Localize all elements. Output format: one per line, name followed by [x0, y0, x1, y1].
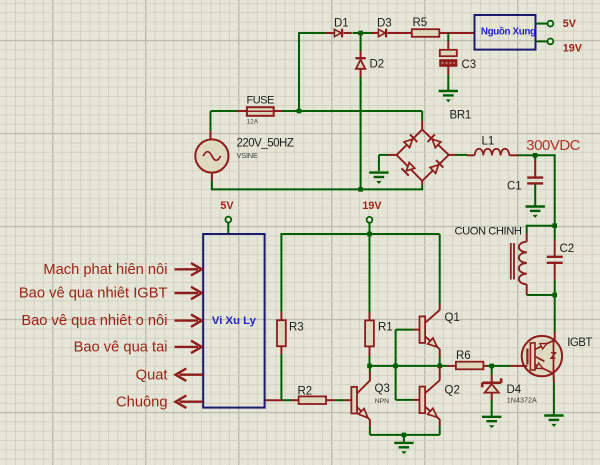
- label 300VDC net: [526, 137, 580, 154]
- wire C1 to ground: [534, 185, 536, 206]
- svg-text:Mach phat hiên nôi: Mach phat hiên nôi: [43, 262, 167, 278]
- transformer core lines: [511, 243, 514, 280]
- svg-text:300VDC: 300VDC: [526, 137, 580, 154]
- label Chu&#244;ng: [116, 394, 167, 410]
- inductor CUON CHINH coil: [519, 242, 527, 285]
- node junction fuse-rail: [297, 109, 302, 114]
- svg-text:D3: D3: [377, 18, 392, 30]
- label C1: [507, 181, 522, 193]
- label R3: [289, 322, 304, 334]
- svg-text:C1: C1: [507, 181, 522, 193]
- wire box to R2: [265, 399, 299, 401]
- label C3: [462, 59, 477, 71]
- signal arrow 5: [176, 369, 204, 381]
- wire bottom rail: [370, 434, 440, 436]
- resistor R6: [456, 362, 484, 370]
- node junction R6-D4: [489, 364, 494, 369]
- resistor R3: [277, 320, 286, 346]
- svg-text:R1: R1: [378, 322, 393, 334]
- node junction R1 bottom: [367, 364, 372, 369]
- diode D2: [356, 51, 366, 77]
- svg-text:Chuông: Chuông: [116, 394, 167, 410]
- transistor IGBT Q4: [522, 336, 562, 376]
- label D1: [334, 18, 349, 30]
- svg-text:Bao vê qua nhiêt o nôi: Bao vê qua nhiêt o nôi: [21, 313, 167, 329]
- resistor R2: [299, 396, 327, 404]
- mcu block Vi Xu Ly: [203, 234, 264, 408]
- svg-text:1N4372A: 1N4372A: [507, 396, 537, 405]
- svg-text:220V_50HZ: 220V_50HZ: [237, 138, 294, 150]
- wire R2 to Q3 base: [326, 399, 351, 401]
- label FUSE: [247, 95, 275, 107]
- wire D2 to AC bottom: [360, 77, 362, 189]
- wire R6 left: [442, 365, 456, 367]
- wire choke top: [527, 225, 555, 227]
- wire 19V rail: [281, 233, 439, 235]
- ground bottom rail: [394, 436, 413, 454]
- svg-text:D1: D1: [334, 18, 349, 30]
- zener diode D4: [482, 378, 501, 392]
- svg-text:Bao vê qua tai: Bao vê qua tai: [74, 340, 168, 356]
- ground bridge minus: [369, 173, 388, 184]
- label Bao v&#234; qua nhi&#234;t o n&#244;i: [21, 313, 167, 329]
- node junction Q2 base drop: [393, 364, 398, 369]
- svg-text:C3: C3: [462, 59, 477, 71]
- source V1 220V_50HZ VSINE: [195, 139, 228, 172]
- label R2: [298, 386, 313, 398]
- label Vi Xu Ly: [212, 315, 257, 327]
- label R1: [378, 322, 393, 334]
- wire D2 upper stub: [360, 35, 362, 51]
- signal arrow 1: [175, 263, 202, 275]
- wire 300VDC to C1: [534, 155, 536, 176]
- wire R6 to D4 node: [484, 365, 490, 367]
- svg-text:Q3: Q3: [375, 383, 390, 395]
- svg-text:C2: C2: [560, 243, 575, 255]
- svg-text:L1: L1: [482, 136, 495, 148]
- wire IGBT emitter: [553, 374, 555, 415]
- label L1: [482, 136, 495, 148]
- label NPN: [375, 398, 389, 405]
- power supply block Nguon Xung: [475, 15, 536, 50]
- svg-text:CUON CHINH: CUON CHINH: [455, 226, 522, 238]
- label VSINE: [237, 151, 258, 160]
- node junction 300VDC: [533, 153, 538, 158]
- svg-text:Quat: Quat: [136, 367, 168, 383]
- label D2: [370, 59, 385, 71]
- label D3: [377, 18, 392, 30]
- label 12A: [247, 119, 259, 126]
- wire top rail left vertical: [298, 33, 300, 111]
- ground D4: [482, 417, 501, 428]
- svg-text:D2: D2: [370, 59, 385, 71]
- wire C3 to ground: [447, 66, 449, 90]
- svg-text:19V: 19V: [563, 43, 583, 55]
- diode D1: [325, 29, 352, 38]
- wire choke top stub: [526, 225, 528, 242]
- fuse FUSE 12A: [237, 107, 282, 116]
- wire R1 top: [369, 234, 371, 320]
- diode D3: [372, 29, 413, 38]
- wire Q2 collector: [439, 366, 441, 381]
- bridge diode bottom-right: [429, 160, 443, 174]
- ground IGBT emitter: [544, 416, 563, 427]
- label C2: [560, 243, 575, 255]
- ground C3: [439, 91, 458, 102]
- svg-text:12A: 12A: [247, 119, 259, 126]
- wire C2 top: [554, 226, 556, 256]
- wire Q1 emitter: [439, 349, 441, 366]
- svg-text:VSINE: VSINE: [237, 151, 258, 160]
- label IGBT: [567, 337, 592, 349]
- wire IGBT gate: [494, 365, 527, 367]
- svg-text:NPN: NPN: [375, 398, 389, 405]
- svg-text:5V: 5V: [220, 200, 234, 212]
- svg-text:Nguồn Xung: Nguồn Xung: [481, 27, 536, 38]
- power terminal 5V: [220, 200, 234, 234]
- label 220V_50HZ: [237, 138, 294, 150]
- label Quat: [136, 367, 168, 383]
- power terminal 19V: [362, 200, 382, 234]
- signal arrow 3: [175, 314, 202, 326]
- transistor Q2: [420, 380, 440, 420]
- resistor R1: [365, 320, 374, 346]
- wire R3 top: [280, 233, 282, 320]
- resistor R5: [412, 29, 440, 37]
- label 19V output: [563, 43, 583, 55]
- node junction Q1-Q2: [437, 364, 442, 369]
- label 5V output: [563, 18, 577, 30]
- svg-text:D4: D4: [507, 384, 522, 396]
- pin PSU 19V output: [536, 39, 554, 45]
- bridge diode top-left: [403, 134, 417, 148]
- transistor Q1: [420, 310, 440, 350]
- wire L1 to 300VDC node: [509, 154, 554, 156]
- wire VSINE bottom: [211, 173, 361, 190]
- node junction D2-AC bottom: [358, 187, 363, 192]
- label Bao v&#234; qua tai: [74, 340, 168, 356]
- capacitor C1: [527, 178, 543, 184]
- label R6: [456, 350, 471, 362]
- node junction choke bottom: [552, 293, 557, 298]
- wire top rail horizontal: [298, 32, 372, 34]
- svg-text:Q1: Q1: [445, 312, 460, 324]
- label Mach phat hi&#234;n n&#244;i: [43, 262, 167, 278]
- label 1N4372A: [507, 396, 537, 405]
- svg-text:R6: R6: [456, 350, 471, 362]
- wire bridge to L1: [449, 154, 475, 156]
- wire VSINE top: [210, 111, 212, 140]
- capacitor C2: [547, 257, 563, 263]
- svg-text:5V: 5V: [563, 18, 577, 30]
- node junction 19V rail: [367, 232, 372, 237]
- label Bao v&#234; qua nhi&#234;t IGBT: [19, 286, 168, 302]
- svg-text:Vi Xu Ly: Vi Xu Ly: [212, 315, 257, 327]
- svg-text:Q2: Q2: [445, 385, 460, 397]
- bridge diode bottom-left: [402, 162, 416, 176]
- wire AC bottom: [361, 188, 423, 190]
- wire D4 to ground: [491, 393, 493, 416]
- wire R5 to PSU: [439, 32, 474, 34]
- label R5: [413, 17, 428, 29]
- label Nguon Xung: [481, 27, 536, 38]
- node junction bottom rail: [402, 433, 407, 438]
- svg-text:R3: R3: [289, 322, 304, 334]
- wire bridge left to ground: [379, 155, 397, 171]
- svg-text:19V: 19V: [362, 200, 382, 212]
- svg-text:FUSE: FUSE: [247, 95, 275, 107]
- wire Q1 collector: [439, 234, 441, 310]
- wire bridge top stub: [421, 111, 423, 130]
- wire base row: [370, 365, 440, 367]
- bridge diode top-right: [428, 134, 442, 148]
- label D4: [507, 384, 522, 396]
- svg-text:R5: R5: [413, 17, 428, 29]
- svg-text:Bao vê qua nhiêt IGBT: Bao vê qua nhiêt IGBT: [19, 286, 168, 302]
- label Q3: [375, 383, 390, 395]
- node junction choke top: [552, 223, 557, 228]
- wire R1 bottom: [369, 346, 371, 366]
- label Q1: [445, 312, 460, 324]
- wire Q3 emitter: [369, 420, 371, 435]
- label CUON CHINH: [455, 226, 522, 238]
- inductor L1: [475, 149, 510, 156]
- node junction D1-D2-D3: [358, 31, 363, 36]
- wire fuse row: [211, 110, 423, 112]
- wire Q2 emitter: [439, 419, 441, 435]
- wire R3 bottom: [280, 346, 282, 400]
- wire choke node to IGBT collector: [554, 295, 556, 341]
- signal arrow 6: [176, 396, 204, 408]
- signal arrow 4: [175, 341, 202, 353]
- svg-text:R2: R2: [298, 386, 313, 398]
- pin PSU 5V output: [536, 21, 554, 27]
- wire Q1 base: [396, 330, 420, 366]
- svg-text:BR1: BR1: [450, 109, 471, 121]
- svg-text:IGBT: IGBT: [567, 337, 592, 349]
- wire Q2 base: [396, 366, 420, 400]
- label Q2: [445, 385, 460, 397]
- label BR1: [450, 109, 471, 121]
- wire bridge bottom stub: [421, 181, 423, 191]
- wire 300VDC down right side: [554, 154, 556, 225]
- ground C1: [526, 207, 545, 218]
- wire C2 bottom: [554, 264, 556, 295]
- transistor Q3: [351, 381, 370, 421]
- bridge BR1 frame: [397, 130, 449, 181]
- capacitor C3: [440, 50, 457, 66]
- wire R5 node to C3: [447, 33, 449, 51]
- wire choke bottom stub: [527, 284, 555, 295]
- wire Q3 collector: [369, 366, 371, 381]
- signal arrow 2: [175, 287, 202, 299]
- wire D4 stub: [491, 367, 493, 382]
